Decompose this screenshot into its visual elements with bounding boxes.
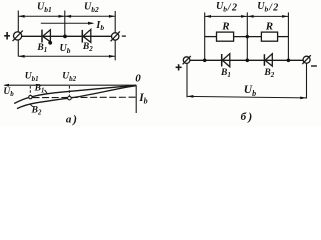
diode B2 xyxy=(81,30,83,43)
operating point on B1 xyxy=(29,95,32,98)
svg-text:0: 0 xyxy=(135,72,141,84)
riser 1 xyxy=(204,12,206,60)
dimension U_b/2 left xyxy=(205,15,248,18)
resistor R (right box) xyxy=(261,32,277,41)
dimension U_b (bottom) xyxy=(18,55,115,58)
svg-text:б: б xyxy=(241,111,247,123)
wire xyxy=(190,59,304,61)
curve B1 xyxy=(14,85,136,103)
plus sign left xyxy=(4,32,10,40)
svg-text:): ) xyxy=(72,112,77,126)
operating point on B2 xyxy=(68,96,72,100)
node (junction dot) xyxy=(63,35,67,39)
resistor R (left box) xyxy=(217,32,234,41)
node dot wire 2 xyxy=(246,59,250,63)
dimension tick right xyxy=(114,11,116,60)
svg-text:): ) xyxy=(247,110,252,124)
svg-text:/2: /2 xyxy=(227,3,239,14)
svg-text:R: R xyxy=(221,20,229,32)
dashed drop at U_b1 xyxy=(29,86,31,95)
I axis (vertical, downward) xyxy=(135,85,137,113)
svg-text:а: а xyxy=(66,113,72,125)
curve B2 xyxy=(17,86,136,109)
dimension tick left xyxy=(17,11,19,57)
diode B2 xyxy=(263,54,265,66)
dimension U_b1 (top) xyxy=(18,15,65,18)
terminal right xyxy=(303,56,310,63)
current arrow I_b xyxy=(41,22,95,25)
terminal right xyxy=(112,33,119,40)
dashed drop at U_b2 xyxy=(68,86,70,96)
dimension tick left (bottom) xyxy=(186,63,188,97)
riser 2 xyxy=(246,12,248,60)
node dot wire 1 xyxy=(203,59,207,63)
terminal left xyxy=(14,32,22,40)
bus segments xyxy=(205,36,217,38)
plus sign xyxy=(176,64,182,70)
minus sign xyxy=(311,65,317,67)
dimension tick middle xyxy=(64,11,66,37)
minus sign right xyxy=(122,35,126,37)
diode B1 xyxy=(221,54,223,67)
dimension tick right (bottom) xyxy=(306,63,308,98)
node dot bus xyxy=(246,35,249,38)
dimension U_b/2 right xyxy=(247,15,288,18)
svg-text:R: R xyxy=(265,20,273,32)
terminal left xyxy=(183,57,190,64)
dimension U_b (bottom) xyxy=(187,95,307,99)
dashed I_b level line xyxy=(33,96,137,98)
dimension U_b2 (top) xyxy=(65,15,115,18)
riser 3 xyxy=(287,12,289,60)
U axis (horizontal) xyxy=(3,84,136,87)
svg-text:/2: /2 xyxy=(268,3,280,14)
wire xyxy=(22,35,112,37)
ink blob under B1 xyxy=(48,41,52,45)
diode B1 xyxy=(41,30,43,43)
node dot wire 3 xyxy=(287,59,291,63)
